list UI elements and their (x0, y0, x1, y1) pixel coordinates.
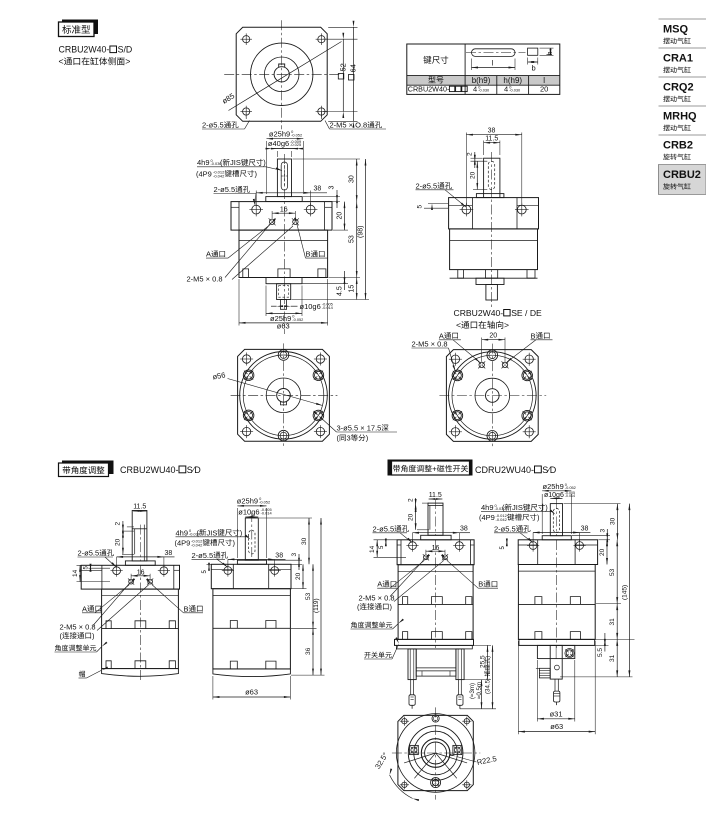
svg-text:CRBU2W40-: CRBU2W40- (59, 45, 110, 55)
svg-text:B: B (184, 604, 189, 613)
svg-text:4: 4 (504, 85, 508, 94)
svg-text:31: 31 (609, 654, 616, 662)
svg-text:-0.052: -0.052 (565, 485, 576, 490)
svg-text:JIS: JIS (207, 528, 218, 537)
svg-text:2-M5 × 0.8: 2-M5 × 0.8 (187, 275, 223, 284)
svg-text:b(h9): b(h9) (472, 76, 491, 85)
svg-text:38: 38 (165, 550, 173, 557)
svg-text:3-ø5.5 × 17.5: 3-ø5.5 × 17.5 (337, 424, 382, 433)
svg-text:ø10g6: ø10g6 (238, 507, 259, 516)
svg-text:3: 3 (347, 434, 351, 443)
svg-text:<: < (59, 57, 64, 67)
svg-text:3: 3 (329, 186, 336, 190)
svg-text:>: > (504, 320, 509, 330)
svg-text:(119): (119) (313, 598, 320, 613)
svg-text:CRQ2: CRQ2 (663, 82, 694, 94)
svg-text:≈0.5m: ≈0.5m (476, 682, 483, 699)
svg-text:MSQ: MSQ (663, 24, 689, 36)
svg-text:>: > (125, 57, 130, 67)
svg-text:20: 20 (489, 333, 497, 340)
svg-text:CRBU2: CRBU2 (663, 169, 701, 181)
svg-text:20: 20 (115, 538, 122, 546)
svg-text:4h9: 4h9 (197, 158, 210, 167)
svg-text:CDRU2WU40-: CDRU2WU40- (475, 465, 534, 475)
svg-text:CRB2: CRB2 (663, 140, 693, 152)
svg-text:ø40g6: ø40g6 (268, 139, 289, 148)
svg-text:2-M5 × 0.8: 2-M5 × 0.8 (412, 340, 448, 349)
svg-text:-0.030: -0.030 (495, 506, 507, 511)
svg-text:-0.030: -0.030 (189, 531, 201, 536)
svg-text:CRBU2W40-: CRBU2W40- (454, 308, 504, 318)
svg-text:38: 38 (314, 186, 322, 193)
svg-text:(4P9: (4P9 (479, 513, 495, 522)
svg-text:l: l (543, 76, 545, 85)
svg-text:ø63: ø63 (277, 322, 290, 331)
svg-text:30: 30 (609, 517, 616, 525)
svg-text:ø63: ø63 (245, 688, 258, 697)
svg-text:ø25h9: ø25h9 (543, 482, 564, 491)
svg-text:B: B (478, 580, 483, 589)
svg-text:ø63: ø63 (550, 722, 563, 731)
svg-text:B: B (531, 331, 536, 340)
svg-text:20: 20 (469, 171, 476, 179)
svg-text:CRBU2WU40-: CRBU2WU40- (120, 465, 179, 475)
svg-text:11.5: 11.5 (485, 135, 498, 142)
svg-text:36: 36 (305, 647, 312, 655)
svg-text:20: 20 (540, 85, 548, 94)
svg-text:20: 20 (295, 572, 302, 580)
svg-text:2-ø5.5: 2-ø5.5 (202, 121, 224, 130)
svg-text:2-M5 × 0.8: 2-M5 × 0.8 (60, 622, 96, 631)
svg-text:5: 5 (417, 205, 424, 209)
svg-text:h(h9): h(h9) (503, 76, 522, 85)
svg-text:11.5: 11.5 (133, 504, 146, 511)
svg-text:2-ø5.5: 2-ø5.5 (416, 181, 438, 190)
svg-text:B: B (306, 250, 311, 259)
svg-text:2-ø5.5: 2-ø5.5 (214, 185, 236, 194)
svg-text:38: 38 (581, 525, 589, 532)
svg-text:5.5: 5.5 (597, 648, 604, 657)
svg-text:2: 2 (115, 522, 122, 526)
svg-text:S∕D: S∕D (187, 465, 202, 475)
svg-text:ø25h9: ø25h9 (269, 129, 290, 138)
svg-text:-0.025: -0.025 (290, 142, 301, 147)
svg-text:14: 14 (369, 545, 376, 553)
svg-text:30: 30 (349, 175, 356, 183)
svg-text:-0.052: -0.052 (259, 499, 270, 504)
svg-text:<: < (456, 320, 461, 330)
svg-text:): ) (485, 656, 492, 658)
svg-text:53: 53 (349, 235, 356, 243)
svg-text:-0.052: -0.052 (291, 132, 302, 137)
svg-text:2-ø5.5: 2-ø5.5 (192, 551, 214, 560)
svg-text:(4P9: (4P9 (196, 169, 212, 178)
svg-text:4h9: 4h9 (481, 503, 494, 512)
svg-text:3: 3 (291, 553, 298, 557)
svg-text:SE / DE: SE / DE (511, 308, 542, 318)
svg-text:2-ø5.5: 2-ø5.5 (78, 549, 100, 558)
svg-text:b: b (532, 64, 536, 73)
svg-text:ø31: ø31 (550, 709, 563, 718)
svg-text:53: 53 (305, 592, 312, 600)
svg-text:(98): (98) (358, 226, 365, 238)
svg-text:2-M5 × O.8: 2-M5 × O.8 (330, 121, 368, 130)
svg-text:A: A (82, 604, 87, 613)
svg-text:30: 30 (301, 537, 308, 545)
svg-text:2: 2 (407, 498, 414, 502)
svg-text:-0.030: -0.030 (478, 88, 490, 93)
svg-text:15: 15 (349, 285, 356, 293)
svg-text:-0.030: -0.030 (509, 88, 521, 93)
svg-text:ø25h9: ø25h9 (237, 496, 258, 505)
svg-text:-0.042: -0.042 (496, 517, 508, 522)
svg-text:53: 53 (609, 568, 616, 576)
svg-text:+: + (432, 465, 437, 474)
svg-text:A: A (206, 250, 211, 259)
svg-text:(4P9: (4P9 (175, 538, 191, 547)
svg-text:38: 38 (460, 526, 468, 533)
svg-text:20: 20 (599, 548, 606, 556)
svg-text:ø10g6: ø10g6 (300, 302, 321, 311)
svg-text:16: 16 (280, 206, 288, 213)
svg-text:CRBU2W40-: CRBU2W40- (408, 85, 450, 94)
svg-text:38: 38 (275, 552, 283, 559)
svg-text:64: 64 (349, 64, 358, 72)
svg-text:A: A (377, 580, 382, 589)
svg-text:-0.052: -0.052 (292, 317, 303, 322)
svg-text:2-M5 × 0.8: 2-M5 × 0.8 (359, 593, 395, 602)
svg-text:4h9: 4h9 (176, 528, 189, 537)
svg-text:-0.014: -0.014 (565, 494, 575, 498)
svg-text:-0.042: -0.042 (213, 173, 225, 178)
svg-text:11.5: 11.5 (429, 492, 442, 499)
svg-text:(34.5:: (34.5: (485, 678, 492, 694)
svg-text:-0.042: -0.042 (191, 542, 203, 547)
svg-text:2: 2 (467, 152, 474, 156)
svg-text:4.5: 4.5 (337, 286, 344, 296)
svg-text:(145): (145) (621, 585, 628, 600)
svg-text:CRA1: CRA1 (663, 53, 693, 65)
svg-text:S∕D: S∕D (542, 465, 557, 475)
svg-text:h: h (545, 51, 554, 55)
svg-text:20: 20 (337, 212, 344, 220)
svg-text:2-ø5.5: 2-ø5.5 (494, 524, 516, 533)
svg-text:S/D: S/D (118, 45, 133, 55)
svg-text:4: 4 (473, 85, 477, 94)
svg-text:31: 31 (609, 618, 616, 626)
svg-text:JIS: JIS (230, 158, 241, 167)
svg-text:JIS: JIS (512, 503, 523, 512)
svg-text:20: 20 (407, 513, 414, 521)
svg-text:3: 3 (599, 529, 606, 533)
svg-text:MRHQ: MRHQ (663, 111, 697, 123)
svg-text:38: 38 (488, 127, 496, 134)
svg-text:2-ø5.5: 2-ø5.5 (373, 524, 395, 533)
svg-text:52: 52 (338, 63, 347, 71)
svg-text:14: 14 (72, 569, 79, 577)
